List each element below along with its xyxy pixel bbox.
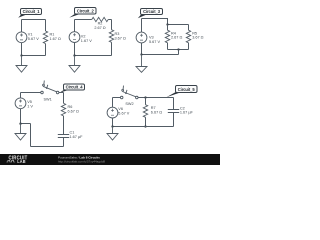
- svg-text:C1: C1: [70, 130, 75, 134]
- wire parallel top rail: [168, 24, 189, 26]
- node junction circuit 1: [20, 54, 22, 56]
- svg-text:3.67 Ω: 3.67 Ω: [192, 36, 203, 40]
- resistor R1: [43, 31, 61, 44]
- wire source top lead: [20, 93, 22, 98]
- node junction top circuit 3: [166, 23, 168, 25]
- svg-text:5.67 V: 5.67 V: [28, 37, 39, 41]
- wire R5 lead top: [188, 25, 190, 31]
- svg-text:6.67 Ω: 6.67 Ω: [68, 109, 79, 113]
- svg-text:V6: V6: [118, 107, 123, 111]
- wire bottom rail circuit 4: [31, 146, 64, 148]
- voltage source V6: [107, 107, 130, 118]
- wire source bottom lead: [112, 118, 114, 127]
- resistor R6: [61, 103, 79, 116]
- wire left branch bottom: [141, 43, 143, 55]
- ground circuit 4: [15, 124, 26, 141]
- capacitor C1: [58, 130, 83, 139]
- svg-text:http://circuitlab.com/c/57xy44: http://circuitlab.com/c/57xy44agdd8: [58, 159, 105, 163]
- wire R4 lead bottom: [167, 43, 169, 50]
- wire R4 lead top: [167, 25, 169, 31]
- voltage source V2: [69, 32, 92, 44]
- svg-text:SW1: SW1: [43, 98, 51, 102]
- svg-text:3.67 Ω: 3.67 Ω: [115, 37, 126, 41]
- resistor R5: [186, 30, 203, 43]
- label Circuit_1: [18, 9, 41, 18]
- wire C1 bottom to rail: [63, 138, 65, 147]
- switch SW1: [41, 81, 59, 102]
- svg-text:V5: V5: [27, 100, 32, 104]
- label Circuit_3: [138, 9, 163, 19]
- wire right branch bottom: [45, 44, 47, 56]
- resistor R2: [92, 17, 108, 30]
- svg-text:R7: R7: [151, 106, 156, 110]
- node junction circuit 4: [19, 123, 21, 125]
- wire left branch top: [74, 20, 76, 32]
- label Circuit_4: [60, 84, 85, 93]
- wire right branch top: [45, 20, 47, 32]
- CircuitLab logo: [9, 155, 28, 162]
- svg-text:Circuit_2: Circuit_2: [77, 8, 95, 13]
- wire top rail right circuit 2: [108, 19, 111, 21]
- node junction circuit 2: [73, 54, 75, 56]
- svg-text:R3: R3: [115, 32, 120, 36]
- svg-text:R1: R1: [50, 33, 55, 37]
- wire top rail left circuit 2: [75, 19, 92, 21]
- svg-text:6.67 Ω: 6.67 Ω: [151, 111, 162, 115]
- wire parallel bottom rail: [168, 49, 189, 51]
- svg-text:2.67 Ω: 2.67 Ω: [94, 26, 105, 30]
- wire source bottom lead: [20, 109, 22, 124]
- svg-text:V1: V1: [28, 33, 33, 37]
- wire top rail left circuit 5: [113, 97, 121, 99]
- wire left branch bottom: [74, 43, 76, 56]
- node junction R7 top: [144, 96, 146, 98]
- svg-text:5.67 V: 5.67 V: [118, 111, 129, 115]
- resistor R3: [109, 30, 126, 43]
- wire right branch top: [111, 20, 113, 30]
- svg-text:Circuit_1: Circuit_1: [23, 9, 41, 14]
- node junction R7 bottom: [144, 125, 146, 127]
- wire switch to corner: [59, 92, 64, 94]
- svg-text:Circuit_5: Circuit_5: [178, 87, 196, 92]
- ground circuit 2: [69, 56, 80, 73]
- wire left branch top: [141, 19, 143, 33]
- wire right branch bottom: [111, 42, 113, 55]
- wire bottom rail circuit 2: [75, 55, 112, 57]
- svg-text:V3: V3: [149, 35, 154, 39]
- svg-text:5.67 V: 5.67 V: [149, 40, 160, 44]
- wire bottom return circuit 3: [142, 54, 179, 56]
- svg-text:R6: R6: [68, 105, 73, 109]
- wire source top lead: [112, 98, 114, 108]
- wire left branch top: [21, 20, 23, 32]
- svg-text:1 V: 1 V: [27, 105, 33, 109]
- ground circuit 1: [16, 56, 27, 73]
- label Circuit_5: [166, 86, 197, 98]
- wire R5 lead bottom: [188, 43, 190, 50]
- svg-text:V2: V2: [81, 35, 86, 39]
- svg-text:1.67 µF: 1.67 µF: [70, 135, 84, 139]
- wire drop to return: [178, 50, 180, 55]
- wire return to junction: [21, 123, 31, 125]
- wire R6 to C1: [63, 116, 65, 135]
- svg-text:LAB: LAB: [17, 159, 26, 164]
- wire top rail left circuit 4: [21, 92, 41, 94]
- node junction circuit 3: [140, 53, 142, 55]
- svg-text:1.67 Ω: 1.67 Ω: [50, 37, 61, 41]
- ground circuit 3: [136, 55, 147, 73]
- wire bottom rail circuit 1: [22, 55, 46, 57]
- svg-text:1.67 µF: 1.67 µF: [180, 111, 194, 115]
- svg-text:Circuit_3: Circuit_3: [143, 9, 161, 14]
- wire switch to C2 corner: [138, 97, 173, 99]
- wire bottom rail circuit 5: [113, 126, 174, 128]
- svg-text:R2: R2: [98, 22, 103, 26]
- resistor R4: [165, 30, 182, 43]
- svg-text:Circuit_4: Circuit_4: [66, 85, 84, 90]
- svg-text:1.67 V: 1.67 V: [81, 39, 92, 43]
- node junction bottom rail: [177, 48, 179, 50]
- voltage source V1: [16, 32, 39, 43]
- wire C2 branch top: [173, 98, 175, 110]
- svg-text:2.67 Ω: 2.67 Ω: [171, 36, 182, 40]
- label Circuit_2: [69, 8, 96, 18]
- node junction circuit 5: [111, 125, 113, 127]
- wire R7 lead bottom: [145, 117, 147, 126]
- wire C2 branch bottom: [173, 113, 175, 127]
- wire R6 branch top: [63, 93, 65, 104]
- wire top rail circuit 1: [22, 19, 46, 21]
- resistor R7: [143, 105, 162, 118]
- ground circuit 5: [107, 127, 118, 141]
- capacitor C2: [168, 107, 194, 115]
- wire left branch bottom: [21, 43, 23, 56]
- wire top rail circuit 3: [142, 19, 168, 25]
- voltage source V3: [136, 32, 160, 44]
- voltage source V5: [15, 98, 33, 109]
- switch SW2: [120, 86, 138, 107]
- wire R7 lead top: [145, 98, 147, 105]
- wire left return up: [30, 124, 32, 147]
- svg-text:SW2: SW2: [125, 102, 133, 106]
